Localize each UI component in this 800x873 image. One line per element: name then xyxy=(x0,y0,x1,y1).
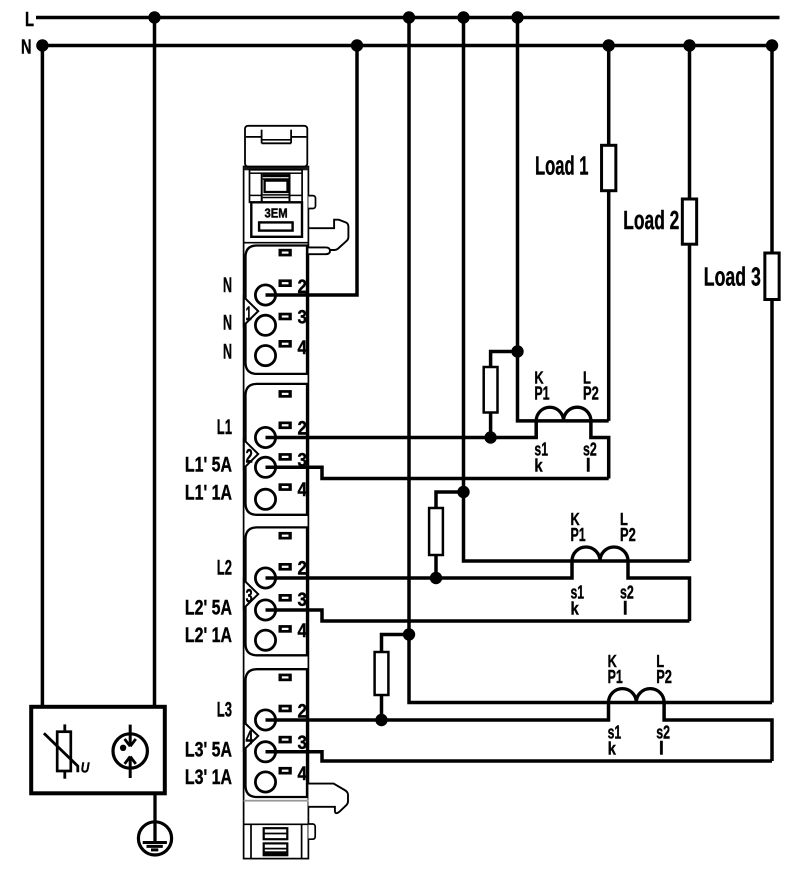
svg-text:k: k xyxy=(608,738,617,759)
wire N bus to Load 3 xyxy=(770,46,774,254)
CT2 current transformer primary humps xyxy=(572,547,628,561)
terminal group 1 circles xyxy=(255,285,275,305)
node fuse2-top xyxy=(457,486,469,498)
fuse F1 xyxy=(484,367,498,413)
CT3 current transformer primary humps xyxy=(609,689,665,703)
terminal group 3 circles xyxy=(255,568,275,588)
resistor Load 1 xyxy=(602,145,616,190)
CT2 s2 wire xyxy=(628,561,690,621)
surge protector box xyxy=(31,707,165,794)
svg-text:L: L xyxy=(25,8,34,31)
group 3 triangle marker xyxy=(244,580,258,608)
3EM label box xyxy=(251,202,302,237)
svg-text:L3' 1A: L3' 1A xyxy=(185,766,232,789)
wire L bus to surge box xyxy=(153,18,157,707)
svg-text:L1: L1 xyxy=(217,416,232,439)
fuse F1 wire lower xyxy=(489,413,493,438)
CT2 return wire to terminal xyxy=(266,610,690,621)
svg-text:N: N xyxy=(223,339,232,363)
device bottom DIN hook xyxy=(308,784,348,814)
ground symbol xyxy=(138,822,171,855)
terminal group 1 box xyxy=(246,246,308,374)
device bottom slot B xyxy=(264,843,288,855)
wire N bus to Load 1 xyxy=(607,46,611,146)
3EM device top cap xyxy=(245,126,307,167)
svg-text:L3' 5A: L3' 5A xyxy=(185,738,232,761)
wire N bus to terminal N xyxy=(266,46,358,296)
node N-load1 xyxy=(603,39,615,51)
group 1 triangle marker xyxy=(244,297,258,325)
node fuse1-bottom xyxy=(484,431,496,443)
svg-text:L2' 1A: L2' 1A xyxy=(185,624,232,647)
node fuse1-top xyxy=(511,345,523,357)
CT3 return wire to terminal xyxy=(266,752,773,761)
spark gap arrester xyxy=(113,734,147,768)
3EM device top dark band xyxy=(244,167,309,171)
resistor Load 3 xyxy=(765,253,779,300)
node N-load3 xyxy=(766,39,778,51)
svg-text:3: 3 xyxy=(246,586,253,607)
node N-meter xyxy=(351,39,363,51)
CT1 s1 wire to terminal xyxy=(266,421,537,438)
svg-text:2: 2 xyxy=(298,558,307,579)
svg-text:2: 2 xyxy=(246,446,253,467)
svg-text:3: 3 xyxy=(298,589,307,610)
wire N bus to Load 2 xyxy=(688,46,692,200)
terminal group 2 slots xyxy=(279,390,292,398)
svg-text:k: k xyxy=(534,455,543,476)
svg-text:4: 4 xyxy=(298,620,307,641)
svg-text:N: N xyxy=(223,310,232,334)
CT1 s2 wire xyxy=(591,421,609,479)
fuse F3 wire upper xyxy=(382,635,410,653)
resistor Load 2 xyxy=(682,199,696,244)
svg-text:P2: P2 xyxy=(620,525,636,545)
terminal group 2 box xyxy=(246,384,308,515)
svg-text:L2' 5A: L2' 5A xyxy=(185,597,232,620)
terminal group 3 box xyxy=(246,527,308,655)
wire Load 3 to CT3 xyxy=(770,300,774,703)
node fuse2-bottom xyxy=(430,572,442,584)
svg-text:P1: P1 xyxy=(571,525,586,545)
svg-text:N: N xyxy=(21,35,31,58)
wire L bus to CT3 primary xyxy=(409,18,772,703)
fuse F1 wire upper xyxy=(491,352,518,368)
node fuse3-bottom xyxy=(375,714,387,726)
varistor RV1 xyxy=(63,724,66,731)
svg-text:1: 1 xyxy=(246,304,252,325)
terminal group 4 slots xyxy=(279,674,292,682)
terminal group 2 circles xyxy=(255,427,275,447)
CT3 s1 wire to terminal xyxy=(266,703,609,721)
fuse F2 xyxy=(429,508,443,555)
device bottom slot A xyxy=(264,828,288,839)
svg-text:L1' 1A: L1' 1A xyxy=(185,482,232,505)
device bottom cap verticals xyxy=(250,824,252,858)
3EM label window xyxy=(259,222,293,230)
svg-text:l: l xyxy=(659,739,664,759)
CT1 return wire to terminal xyxy=(266,467,609,478)
3EM meter device body xyxy=(244,167,309,859)
fuse F3 xyxy=(375,652,389,695)
wire L bus to CT1 primary xyxy=(518,18,609,421)
CT3 s2 wire xyxy=(664,703,772,762)
group 4 triangle marker xyxy=(244,722,258,750)
device mid separator line xyxy=(244,242,309,244)
svg-text:P1: P1 xyxy=(608,667,623,687)
L bus wire xyxy=(36,16,780,20)
3EM device clamp window xyxy=(250,170,303,203)
node N-load2 xyxy=(683,39,695,51)
fuse F3 wire lower xyxy=(380,695,384,720)
svg-text:U: U xyxy=(81,759,91,776)
node L-surge xyxy=(148,11,160,23)
N bus wire xyxy=(42,44,777,48)
terminal group 3 slots xyxy=(279,532,292,540)
device bottom separator xyxy=(244,823,309,825)
terminal group 4 box xyxy=(246,669,308,797)
svg-text:l: l xyxy=(586,455,591,475)
node L-CT2 xyxy=(457,11,469,23)
svg-text:P1: P1 xyxy=(534,383,549,403)
wire N bus to surge box xyxy=(41,46,45,707)
svg-text:l: l xyxy=(623,599,628,619)
svg-text:4: 4 xyxy=(298,337,307,358)
node fuse3-top xyxy=(403,628,415,640)
group 2 triangle marker xyxy=(244,440,258,468)
CT1 current transformer primary humps xyxy=(536,407,591,421)
device bottom gray line xyxy=(244,800,309,802)
svg-text:3: 3 xyxy=(298,307,307,328)
svg-text:2: 2 xyxy=(298,417,307,438)
wire Load 1 to CT1 xyxy=(607,191,611,421)
node L-CT1 xyxy=(511,11,523,23)
svg-text:Load 1: Load 1 xyxy=(535,153,589,181)
node N-surge xyxy=(36,39,48,51)
svg-text:N: N xyxy=(223,273,232,297)
svg-text:4: 4 xyxy=(246,728,254,749)
terminal group 4 circles xyxy=(255,710,275,730)
svg-text:4: 4 xyxy=(298,763,307,784)
wire surge box to ground xyxy=(153,793,156,842)
device top DIN hook xyxy=(308,220,348,250)
CT2 s1 wire to terminal xyxy=(266,561,573,578)
svg-text:k: k xyxy=(571,598,580,619)
svg-text:L3: L3 xyxy=(217,699,232,722)
device right tab lower xyxy=(308,824,315,839)
wire Load 2 to CT2 xyxy=(688,244,692,561)
svg-text:4: 4 xyxy=(298,479,307,500)
device right tab upper xyxy=(308,196,315,209)
svg-text:Load 3: Load 3 xyxy=(704,264,761,292)
svg-text:P2: P2 xyxy=(656,667,672,687)
svg-text:P2: P2 xyxy=(583,383,599,403)
wire L bus to CT2 primary xyxy=(464,18,690,562)
svg-text:3EM: 3EM xyxy=(265,206,288,221)
node L-CT3 xyxy=(403,11,415,23)
svg-text:L2: L2 xyxy=(217,557,232,580)
svg-text:3: 3 xyxy=(298,732,307,753)
svg-text:Load 2: Load 2 xyxy=(623,207,679,235)
device top hook tab xyxy=(308,247,330,254)
svg-text:L1' 5A: L1' 5A xyxy=(185,454,232,477)
fuse F2 wire upper xyxy=(436,492,464,508)
terminal group 1 slots xyxy=(279,249,292,257)
fuse F2 wire lower xyxy=(434,555,438,578)
